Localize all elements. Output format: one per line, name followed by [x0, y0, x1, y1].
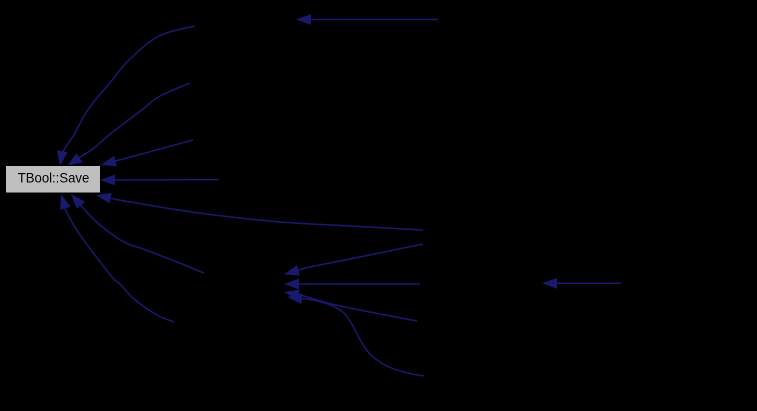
wire edge E7 far-right caller to TBool::Save: [96, 193, 423, 230]
wire edge E2 caller2 to TBool::Save: [67, 83, 190, 166]
node TBool::Save (current function, grey box): [6, 166, 101, 194]
wire edge E6 cluster-node to TBool::Save: [71, 194, 204, 273]
wire edge T1 top horizontal: [296, 14, 438, 25]
wire edge C3 into cluster node: [284, 290, 417, 321]
wire edge E5 caller5 to TBool::Save: [60, 194, 174, 322]
wire edge C1 into cluster node: [284, 244, 423, 276]
wire edge C4 into cluster node (S-curve): [287, 293, 424, 376]
wire edge E4 caller4 to TBool::Save: [100, 175, 219, 186]
wire edge C2 into cluster node (horizontal): [284, 279, 420, 290]
svg-text:TBool::Save: TBool::Save: [18, 170, 90, 186]
wire edge E3 caller3 to TBool::Save: [101, 140, 193, 166]
wire edge E1 caller1 to TBool::Save: [57, 26, 195, 166]
wire edge T2 right horizontal: [542, 278, 621, 289]
